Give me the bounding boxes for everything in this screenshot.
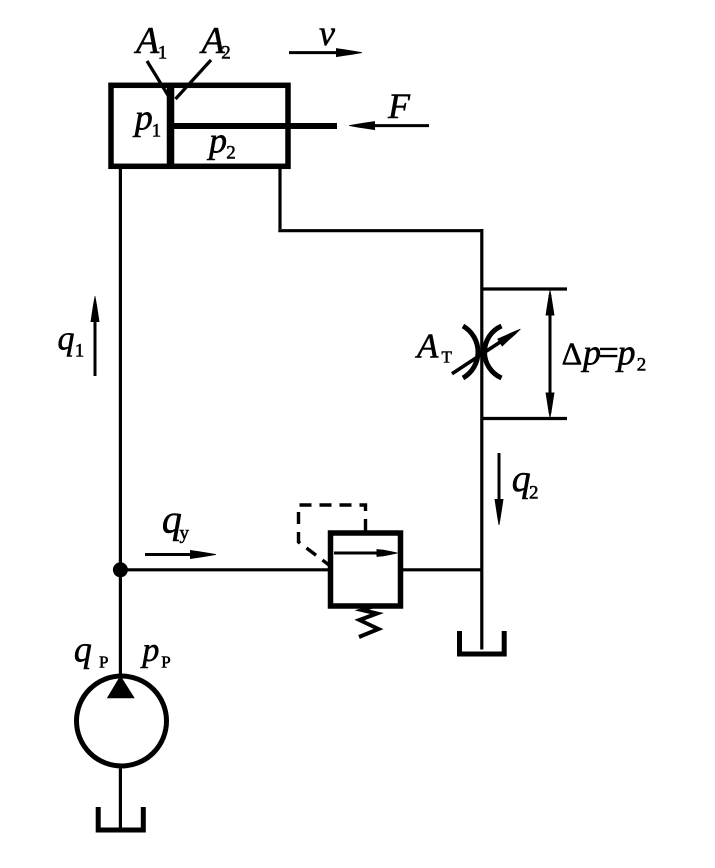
relief valve flow arrow	[334, 549, 398, 557]
label p2	[206, 121, 236, 164]
pipe horizontal to throttle	[278, 229, 481, 232]
pipe from rod side of cylinder	[278, 166, 281, 229]
piston rod	[170, 123, 337, 129]
tank right	[460, 631, 505, 654]
svg-text:=: =	[599, 333, 619, 373]
svg-text:p: p	[132, 98, 153, 138]
label dp = p2	[562, 333, 647, 376]
dimension tick top	[483, 287, 567, 290]
svg-text:T: T	[442, 348, 453, 367]
flow arrow q2	[495, 453, 504, 525]
pump circle	[77, 676, 167, 766]
label qy	[162, 497, 190, 545]
svg-text:P: P	[99, 653, 108, 672]
dimension tick bottom	[483, 417, 567, 420]
velocity arrow v	[289, 48, 362, 57]
label q1	[58, 321, 85, 362]
pump triangle	[107, 676, 135, 699]
svg-text:A: A	[133, 20, 160, 62]
pipe left vertical (q1 line)	[119, 166, 122, 675]
pipe relief valve to tank line	[399, 568, 482, 571]
leader line A1	[147, 61, 172, 101]
tank bottom	[98, 807, 143, 830]
svg-text:2: 2	[529, 483, 539, 504]
pilot dashed line	[299, 505, 366, 565]
label A2	[199, 20, 231, 64]
relief valve spring	[359, 607, 379, 638]
svg-text:1: 1	[158, 43, 168, 64]
force arrow F	[349, 121, 429, 130]
svg-text:1: 1	[152, 121, 162, 142]
svg-text:F: F	[387, 86, 411, 126]
svg-text:1: 1	[75, 341, 85, 362]
junction node	[113, 562, 128, 577]
svg-text:p: p	[206, 121, 227, 161]
pipe junction to relief valve	[121, 568, 333, 571]
piston	[167, 84, 175, 167]
pipe right vertical through throttle	[480, 229, 483, 650]
label p1	[132, 98, 161, 142]
svg-text:q: q	[74, 630, 92, 670]
label pP	[140, 632, 170, 672]
svg-text:y: y	[180, 523, 190, 544]
flow arrow q1	[91, 296, 100, 376]
cylinder body	[111, 85, 288, 166]
svg-text:A: A	[415, 327, 439, 366]
svg-text:p: p	[140, 632, 159, 669]
flow arrow qy	[145, 550, 216, 559]
label q2	[512, 458, 539, 504]
relief valve body	[331, 533, 401, 606]
svg-text:2: 2	[637, 355, 647, 376]
label qP	[74, 630, 109, 672]
svg-text:q: q	[512, 458, 531, 500]
throttle valve AT arcs	[463, 326, 502, 378]
svg-text:P: P	[161, 653, 170, 672]
leader line A2	[176, 60, 212, 99]
svg-text:2: 2	[221, 43, 231, 64]
svg-text:q: q	[58, 321, 75, 358]
label AT	[415, 327, 453, 367]
svg-text:p: p	[615, 333, 636, 373]
throttle adjustment arrow	[452, 329, 521, 374]
pipe pump to tank	[119, 769, 122, 830]
label A1	[133, 20, 167, 64]
svg-text:Δ: Δ	[562, 336, 583, 372]
svg-text:2: 2	[226, 143, 236, 164]
svg-text:v: v	[319, 13, 335, 53]
dimension double arrow	[546, 291, 555, 418]
